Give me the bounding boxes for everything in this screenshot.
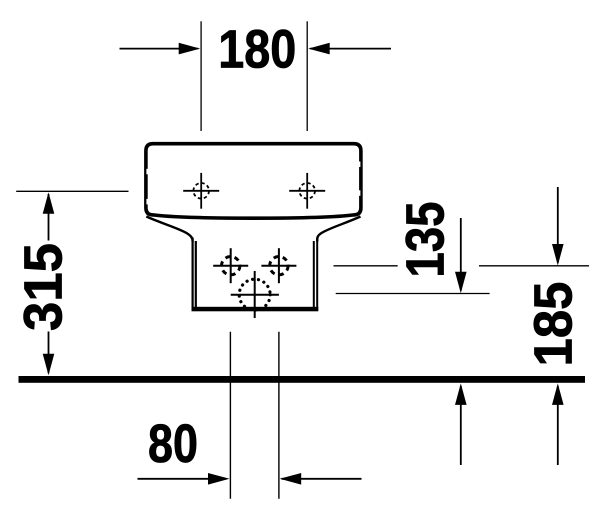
upper fixing hole right: crosshair vertical bbox=[306, 173, 308, 209]
lower fixing hole left: crosshair vertical bbox=[230, 248, 232, 283]
right shoulder curve bbox=[317, 217, 360, 242]
svg-text:315: 315 bbox=[13, 243, 73, 331]
hole height extension line B (outlet) bbox=[336, 293, 490, 295]
upper fixing hole left: crosshair horizontal bbox=[183, 190, 219, 192]
dim 315: up arrow bbox=[43, 192, 55, 214]
dim 80: right dimension line bbox=[282, 478, 362, 480]
dim 315: dimension line upper segment bbox=[48, 194, 50, 241]
dim 315: dimension line lower segment bbox=[48, 332, 50, 374]
dim 80: right extension line bbox=[278, 332, 280, 499]
box right edge seam notch lower bbox=[359, 190, 361, 196]
body top box outline bbox=[146, 144, 361, 219]
box left edge seam notch upper bbox=[146, 169, 148, 175]
svg-text:180: 180 bbox=[218, 20, 296, 80]
waste outlet hole: crosshair vertical bbox=[254, 271, 256, 318]
pedestal inner left wall bbox=[195, 241, 197, 307]
dim 80: right arrow bbox=[280, 473, 302, 485]
ground line bbox=[19, 376, 586, 383]
dim 315: down arrow bbox=[43, 354, 55, 376]
lower fixing hole right: dashed circle bbox=[270, 257, 288, 275]
dim 80: left extension line bbox=[229, 332, 231, 499]
dim 185: upper dimension line bbox=[557, 187, 559, 263]
dim 180: right arrow bbox=[308, 43, 330, 55]
dim 180: right extension line bbox=[306, 21, 308, 131]
dim 315: top extension line bbox=[16, 190, 128, 192]
lower fixing hole left: crosshair horizontal bbox=[213, 265, 248, 267]
svg-text:185: 185 bbox=[524, 282, 584, 367]
dim 180: left arrow bbox=[179, 43, 201, 55]
dim 135: below-ground arrow line bbox=[460, 386, 462, 465]
dim 185: lower dimension line bbox=[557, 386, 559, 465]
upper fixing hole right: dashed circle bbox=[299, 183, 315, 199]
dim 80: left dimension line bbox=[138, 478, 227, 480]
pedestal outer right wall bbox=[316, 238, 318, 311]
dim 180: left extension line bbox=[200, 21, 202, 131]
pedestal inner right wall bbox=[313, 241, 315, 307]
dim 135: dimension line bbox=[460, 218, 462, 291]
svg-text:135: 135 bbox=[396, 202, 456, 278]
dim 180: left dimension line bbox=[120, 48, 199, 50]
upper fixing hole right: crosshair horizontal bbox=[289, 190, 325, 192]
waste outlet hole: dotted circle bbox=[239, 279, 270, 310]
dim 135: below-ground up arrow bbox=[455, 383, 467, 405]
box left edge seam notch lower bbox=[146, 199, 148, 205]
dim 135: down arrow bbox=[455, 272, 467, 294]
box right edge seam notch upper bbox=[359, 162, 361, 168]
lower fixing hole right: crosshair horizontal bbox=[261, 265, 296, 267]
pedestal bottom band bbox=[192, 307, 319, 312]
upper fixing hole left: crosshair vertical bbox=[200, 173, 202, 209]
dim 185: down arrow bbox=[552, 244, 564, 266]
svg-text:80: 80 bbox=[148, 414, 198, 474]
hole height extension line A right segment bbox=[479, 265, 589, 267]
lower fixing hole left: dashed circle bbox=[222, 257, 240, 275]
pedestal outer left wall bbox=[192, 238, 194, 311]
dim 180: right dimension line bbox=[310, 48, 391, 50]
hole height extension line A left segment bbox=[334, 265, 398, 267]
dim 185: up arrow bbox=[552, 383, 564, 405]
upper fixing hole left: dashed circle bbox=[193, 183, 209, 199]
dim 80: left arrow bbox=[208, 473, 230, 485]
waste outlet hole: crosshair horizontal bbox=[231, 294, 279, 296]
lower fixing hole right: crosshair vertical bbox=[278, 248, 280, 283]
left shoulder curve bbox=[146, 217, 192, 242]
